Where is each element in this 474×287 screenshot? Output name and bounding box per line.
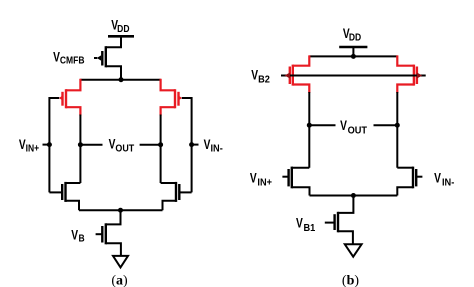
transistor M1 NMOS left (a)	[49, 182, 80, 210]
node VIN+ (a)	[47, 142, 52, 147]
ground (b)	[345, 244, 362, 256]
node VOUT right (b)	[395, 123, 400, 128]
label VIN+ (b)	[250, 170, 273, 189]
label VIN+ (a)	[19, 136, 39, 153]
wire VOUT right (a)	[140, 144, 161, 146]
label VOUT (b)	[340, 117, 367, 136]
svg-text:IN-: IN-	[442, 177, 454, 188]
svg-text:B2: B2	[258, 74, 270, 85]
svg-text:DD: DD	[349, 32, 362, 43]
arrow right PMOS gate (b)	[417, 73, 423, 79]
svg-text:V: V	[340, 117, 347, 133]
label VB (a)	[71, 227, 85, 244]
wire right output column (a)	[160, 115, 162, 184]
node center (a)	[119, 77, 124, 82]
label VDD (b)	[343, 25, 362, 42]
label VIN- (a)	[204, 136, 223, 154]
transistor M_CMFB PMOS (black)	[94, 46, 121, 79]
svg-text:OUT: OUT	[348, 125, 368, 136]
wire right input column (a)	[191, 97, 193, 192]
label VIN- (b)	[434, 170, 454, 189]
transistor M2 NMOS right (a)	[161, 182, 192, 210]
wire right output column (b)	[396, 92, 398, 168]
power rail VDD (a)	[108, 35, 134, 38]
power rail VDD (b)	[339, 46, 367, 49]
wire tail rail (b)	[310, 195, 398, 197]
wire VIN+ stub (a)	[43, 144, 50, 146]
label V_CMFB	[53, 49, 85, 66]
wire tail rail (a)	[79, 209, 163, 211]
svg-text:IN+: IN+	[257, 177, 272, 188]
wire VDD bar to top rail (b)	[352, 47, 354, 56]
svg-text:DD: DD	[117, 24, 130, 35]
transistor left red PMOS (a)	[59, 79, 81, 116]
wire VIN- stub (a)	[192, 144, 199, 146]
wire left output column (b)	[308, 92, 310, 168]
wire VOUT left (b)	[309, 124, 335, 126]
node VOUT left (b)	[307, 123, 312, 128]
svg-text:V: V	[250, 170, 257, 186]
svg-text:B1: B1	[303, 223, 315, 234]
svg-text:V: V	[434, 170, 441, 186]
wire left input column (a)	[48, 97, 50, 192]
label VDD (a)	[111, 17, 130, 34]
svg-text:CMFB: CMFB	[60, 55, 85, 66]
wire left red PMOS gate to input column	[49, 97, 59, 99]
svg-text:V: V	[71, 227, 78, 243]
arrow left PMOS gate (b)	[285, 73, 291, 79]
label VB1 (b)	[296, 215, 315, 234]
wire left output column (a)	[79, 115, 81, 184]
ground (a)	[113, 256, 128, 268]
node VOUT right (a)	[158, 142, 163, 147]
svg-text:OUT: OUT	[115, 143, 134, 153]
transistor M2 NMOS right (b)	[397, 167, 422, 196]
node VIN- (a)	[189, 142, 194, 147]
svg-text:B: B	[79, 233, 86, 244]
node VDD (b)	[351, 54, 356, 59]
transistor left red PMOS (b)	[290, 55, 310, 93]
label VOUT (a)	[109, 136, 135, 153]
transistor V_B NMOS (a)	[96, 210, 121, 256]
wire right red PMOS gate to input column	[182, 97, 192, 99]
svg-text:IN+: IN+	[26, 143, 40, 154]
svg-text:IN-: IN-	[210, 143, 222, 154]
wire VDD bar to M_CMFB source	[106, 36, 121, 47]
wire VOUT left (a)	[80, 144, 102, 146]
transistor right red PMOS (b)	[397, 55, 417, 93]
node tail (b)	[351, 193, 356, 198]
transistor right red PMOS (a)	[161, 79, 183, 116]
transistor V_B1 NMOS (b)	[325, 196, 354, 245]
wire VB2 gate line (b)	[281, 75, 426, 77]
svg-text:(b): (b)	[342, 274, 359, 287]
label VB2 (b)	[251, 67, 270, 86]
node tail (a)	[118, 208, 123, 213]
wire VOUT right (b)	[374, 124, 398, 126]
svg-text:V: V	[296, 215, 303, 231]
node VOUT left (a)	[78, 142, 83, 147]
transistor M1 NMOS left (b)	[282, 167, 309, 196]
wire top rail (b)	[309, 55, 397, 57]
wire center rail (a)	[80, 79, 160, 81]
svg-text:(a): (a)	[111, 274, 128, 287]
